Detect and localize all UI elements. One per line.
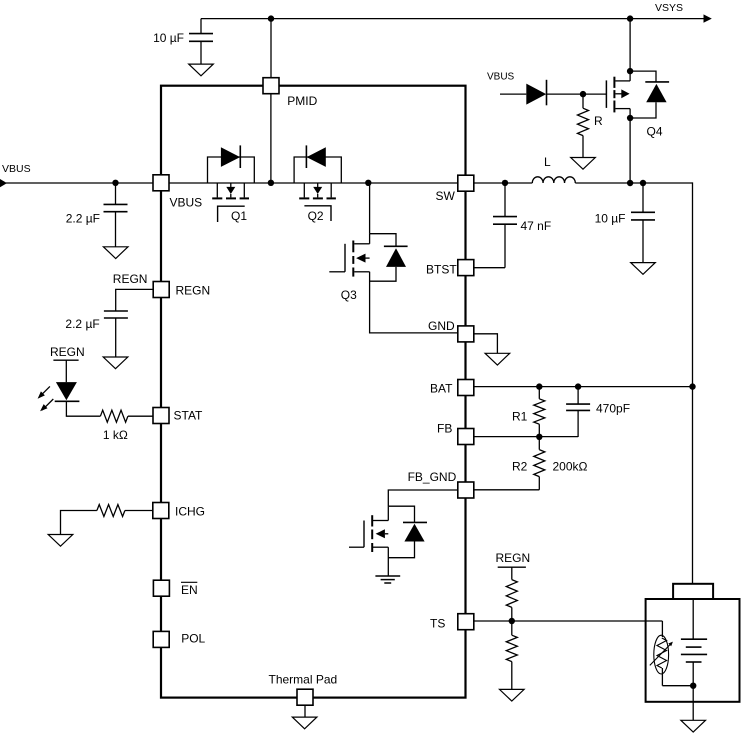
- svg-text:GND: GND: [428, 319, 455, 333]
- pin TS: [458, 614, 474, 630]
- ground (R): [571, 158, 596, 170]
- resistor R4 ICHG: [97, 505, 125, 517]
- svg-text:VBUS: VBUS: [2, 163, 31, 175]
- capacitor C6 470pF: [577, 387, 579, 405]
- capacitor C4 10uF output: [642, 183, 644, 212]
- pin BTST: [458, 260, 474, 276]
- wire Q3 source to GND pin: [370, 272, 458, 333]
- junction Q4 source node: [627, 180, 633, 186]
- wire right rail to battery: [692, 182, 694, 583]
- wire VBUS pin to SW pin: [169, 182, 458, 184]
- svg-text:POL: POL: [181, 631, 205, 645]
- wire R4 to ground: [61, 511, 97, 535]
- wire PMID pin to rail: [270, 94, 272, 183]
- capacitor C1 10uF input: [200, 19, 202, 34]
- wire battery to ground: [692, 686, 694, 721]
- transistor Q4: [605, 80, 607, 108]
- junction 47nF node: [502, 180, 508, 186]
- svg-text:VBUS: VBUS: [487, 71, 515, 82]
- pin BAT: [458, 380, 474, 396]
- body diode Q1: [208, 157, 255, 183]
- transistor Q1: [216, 183, 218, 197]
- resistor R: [582, 94, 584, 108]
- junction BAT right rail: [689, 383, 695, 389]
- junction PMID node: [268, 180, 274, 186]
- svg-text:47 nF: 47 nF: [521, 219, 552, 233]
- capacitor C2 2.2uF VBUS: [115, 183, 117, 204]
- ground (TS divider): [500, 689, 525, 701]
- junction SW Q3: [365, 180, 371, 186]
- wire C3 to BTST: [474, 267, 505, 269]
- svg-text:REGN: REGN: [113, 272, 148, 286]
- pin FB_GND: [458, 482, 474, 498]
- node VBUS input arrow: [0, 179, 7, 187]
- svg-text:PMID: PMID: [287, 94, 317, 108]
- wire battery positive: [692, 599, 694, 639]
- LED D2: [56, 382, 77, 400]
- junction PMID top: [268, 15, 274, 21]
- svg-text:200kΩ: 200kΩ: [553, 459, 588, 473]
- svg-text:2.2 µF: 2.2 µF: [66, 212, 100, 226]
- wire TS to battery: [474, 620, 662, 622]
- svg-text:R2: R2: [512, 459, 528, 473]
- svg-text:BTST: BTST: [426, 262, 457, 276]
- wire FB node: [473, 436, 578, 438]
- svg-text:VSYS: VSYS: [655, 2, 683, 14]
- junction TS divider: [509, 618, 515, 624]
- svg-text:1 kΩ: 1 kΩ: [103, 428, 128, 442]
- svg-text:FB_GND: FB_GND: [408, 470, 457, 484]
- wire BAT rail: [474, 386, 693, 388]
- capacitor C3 47nF: [504, 183, 506, 217]
- svg-text:ICHG: ICHG: [175, 505, 205, 519]
- junction R1 top: [536, 383, 542, 389]
- wire LED to resistor: [66, 401, 100, 416]
- wire FB_GND pin to Q5: [388, 490, 457, 506]
- wire VBUS to diode D1: [500, 93, 526, 95]
- svg-text:R: R: [594, 114, 603, 128]
- svg-text:470pF: 470pF: [596, 402, 630, 416]
- svg-text:FB: FB: [437, 422, 452, 436]
- svg-text:VBUS: VBUS: [170, 196, 203, 210]
- wire VBUS input: [6, 182, 153, 184]
- body diode Q3: [370, 234, 396, 247]
- svg-text:10 µF: 10 µF: [595, 211, 626, 225]
- ground (C1): [189, 64, 214, 76]
- svg-text:SW: SW: [436, 189, 456, 203]
- svg-text:2.2 µF: 2.2 µF: [65, 317, 99, 331]
- svg-text:REGN: REGN: [496, 551, 531, 565]
- ground (Q5 signal ground): [375, 575, 400, 577]
- junction 470pF top: [575, 383, 581, 389]
- node VSYS arrow: [704, 14, 712, 22]
- junction FB: [536, 434, 542, 440]
- transistor Q3: [369, 234, 371, 244]
- resistor R3 1k: [100, 410, 128, 422]
- wire Q3 drain: [369, 183, 371, 234]
- wire D1 to Q4 gate: [547, 93, 607, 95]
- pin PMID: [263, 78, 279, 94]
- wire GND pin: [474, 334, 497, 353]
- junction VSYS Q4: [627, 15, 633, 21]
- pin STAT: [153, 408, 169, 424]
- wire PMID to VSYS rail: [270, 19, 272, 78]
- wire ICHG pin: [125, 510, 153, 512]
- battery pack tab: [673, 584, 713, 599]
- wire R3 to STAT: [128, 415, 153, 417]
- inductor L: [532, 177, 575, 183]
- svg-text:BAT: BAT: [430, 382, 453, 396]
- body diode Q5: [388, 506, 414, 522]
- junction C4 node: [640, 180, 646, 186]
- pin SW: [458, 175, 474, 191]
- battery BT1: [681, 638, 707, 640]
- wire inductor to VSYS-right rail: [575, 182, 692, 184]
- pin GND: [458, 326, 474, 342]
- pin EN: [153, 580, 169, 596]
- body diode Q4: [630, 71, 656, 82]
- wire REGN rail to LED: [65, 360, 67, 382]
- capacitor C5 2.2uF REGN: [104, 310, 128, 312]
- junction VBUS cap: [112, 180, 118, 186]
- svg-text:Thermal Pad: Thermal Pad: [269, 673, 338, 687]
- wire Q4 drain to VSYS: [629, 19, 631, 72]
- battery pack box: [646, 599, 740, 702]
- svg-text:EN: EN: [181, 583, 198, 597]
- svg-text:Q2: Q2: [308, 209, 324, 223]
- body diode Q2: [294, 157, 341, 183]
- resistor R6 TS pulldown: [511, 621, 513, 635]
- svg-text:Q1: Q1: [231, 209, 247, 223]
- junction R gate: [580, 91, 586, 97]
- ground (C2): [103, 247, 128, 259]
- svg-text:REGN: REGN: [50, 345, 85, 359]
- transistor Q5 (FB_GND): [387, 506, 389, 520]
- wire VSYS top rail: [201, 18, 704, 20]
- svg-text:REGN: REGN: [176, 284, 211, 298]
- svg-text:10 µF: 10 µF: [153, 31, 184, 45]
- ground (thermal pad): [292, 717, 317, 729]
- resistor R1: [538, 387, 540, 399]
- wire FB_GND: [473, 489, 539, 491]
- ground (ICHG): [48, 535, 73, 547]
- thermistor RT: [661, 621, 663, 637]
- REGN rail (TS): [498, 566, 526, 568]
- ground (battery): [681, 720, 706, 732]
- op-amp U1 IC body: [161, 86, 466, 698]
- pin POL: [153, 631, 169, 647]
- svg-text:Q3: Q3: [341, 288, 357, 302]
- resistor R2: [538, 437, 540, 450]
- pin FB: [458, 429, 474, 445]
- wire REGN rail to R5: [511, 567, 513, 579]
- svg-text:TS: TS: [430, 617, 445, 631]
- ground (GND pin): [485, 353, 510, 365]
- wire thermal pad: [304, 705, 306, 717]
- pin REGN: [153, 282, 169, 298]
- ground (C5): [103, 357, 128, 369]
- svg-text:R1: R1: [512, 410, 528, 424]
- svg-text:Q4: Q4: [647, 124, 663, 138]
- REGN rail (LED): [53, 359, 78, 361]
- pin ICHG: [153, 503, 169, 519]
- diode D1: [526, 84, 546, 105]
- svg-text:L: L: [544, 155, 551, 169]
- wire REGN to cap: [116, 289, 153, 311]
- pin Thermal Pad: [297, 689, 313, 705]
- resistor R5 TS pullup: [506, 580, 517, 608]
- transistor Q2: [303, 183, 305, 197]
- ground (C4): [631, 263, 656, 275]
- wire SW to inductor: [474, 182, 532, 184]
- pin VBUS: [153, 175, 169, 191]
- svg-text:STAT: STAT: [174, 409, 204, 423]
- junction battery negative: [690, 683, 696, 689]
